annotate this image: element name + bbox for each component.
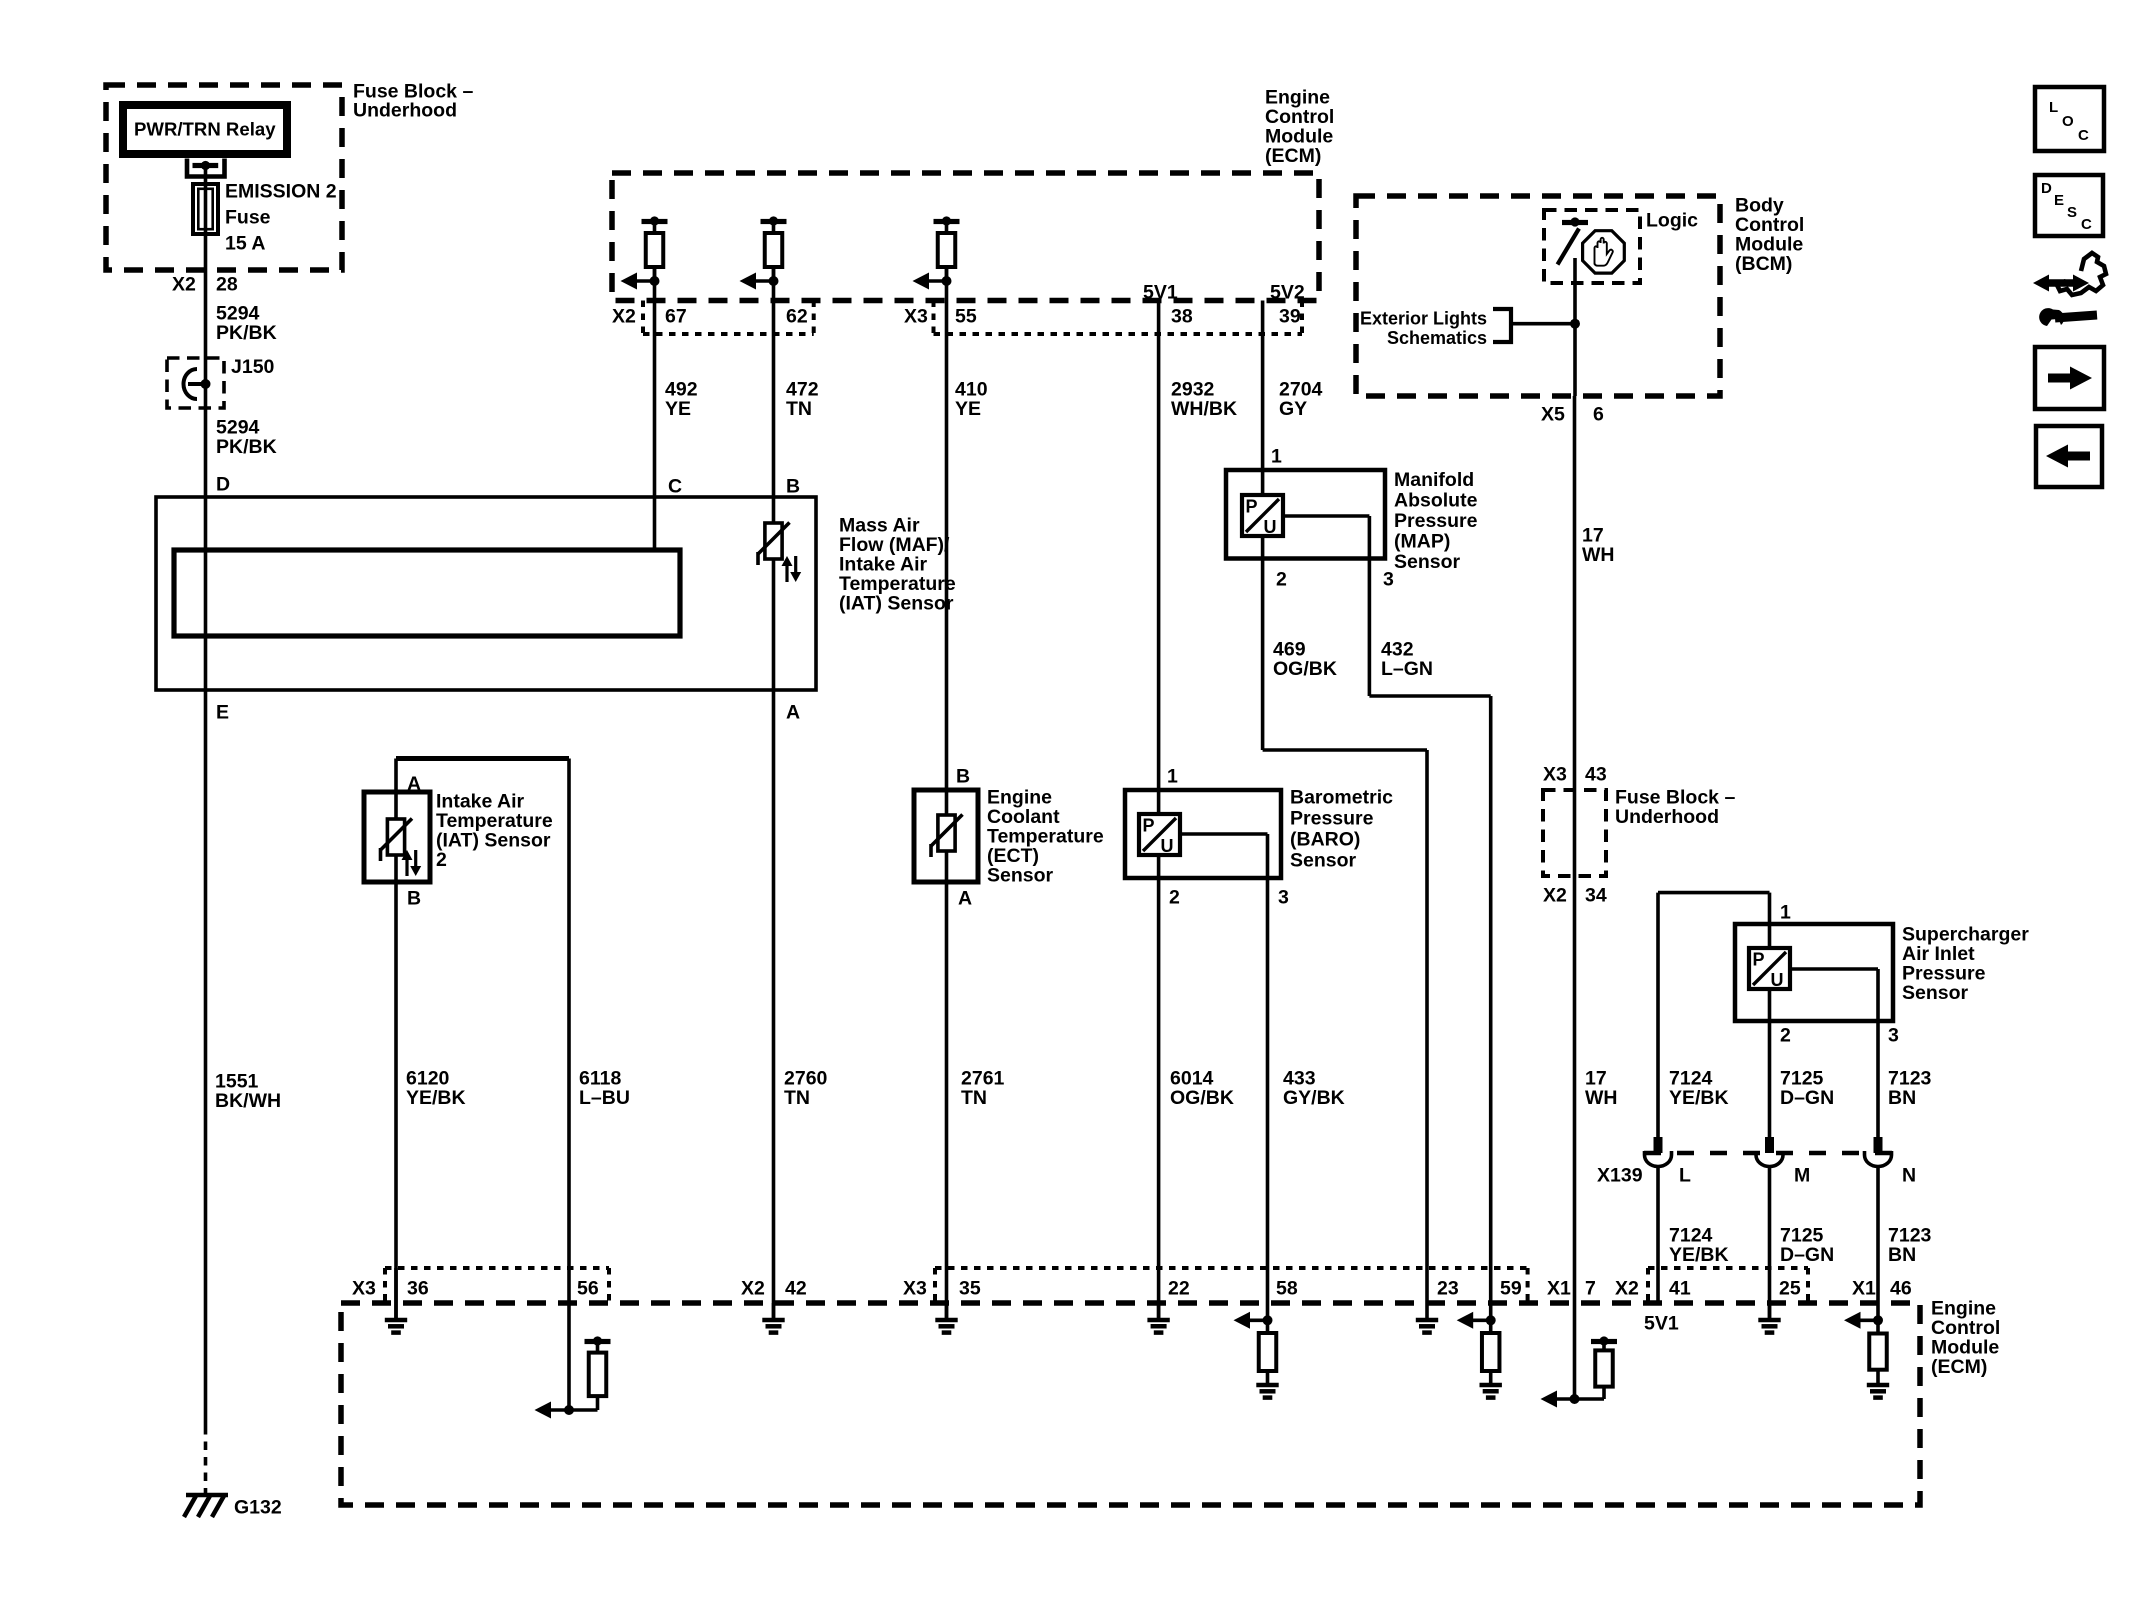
svg-text:15 A: 15 A (225, 233, 265, 255)
svg-text:1: 1 (1271, 446, 1282, 468)
pin 59 internal: arrow, resistor, ground (1457, 1312, 1502, 1398)
MAF/IAT sensor inner element box (174, 550, 680, 636)
MAF/IAT sensor outer box (156, 497, 816, 690)
svg-text:X3: X3 (352, 1278, 376, 1300)
svg-text:L: L (2049, 99, 2058, 116)
ECM internal pull-up resistor with arrow (pin 55) (913, 216, 960, 289)
wire label 6120 YE/BK (406, 1068, 466, 1110)
svg-text:C: C (2078, 127, 2089, 144)
svg-text:39: 39 (1279, 306, 1301, 328)
icon right-arrow box (2035, 347, 2104, 409)
wire 2704 GY (pin 39 5V2 to MAP 1) (1261, 301, 1265, 471)
ECM top dashed box (612, 87, 1334, 301)
svg-text:X2: X2 (741, 1278, 765, 1300)
svg-text:2: 2 (1780, 1025, 1791, 1047)
svg-text:62: 62 (786, 306, 808, 328)
svg-text:Underhood: Underhood (1615, 806, 1719, 828)
pin 46 internal: arrow, resistor, ground (1844, 1312, 1889, 1398)
svg-text:N: N (1902, 1165, 1916, 1187)
svg-text:Pressure: Pressure (1394, 510, 1478, 532)
svg-text:S: S (2067, 204, 2077, 221)
wire 492 YE (pin 67 to MAF C) (653, 267, 657, 497)
svg-text:42: 42 (785, 1278, 807, 1300)
svg-text:3: 3 (1383, 569, 1394, 591)
relay PWR/TRN Relay (123, 105, 287, 154)
svg-text:C: C (2081, 216, 2092, 233)
svg-text:L–BU: L–BU (579, 1087, 630, 1109)
svg-text:BN: BN (1888, 1087, 1916, 1109)
wire 2932 WH/BK (pin 38 5V1 to BARO 1) (1157, 301, 1161, 791)
svg-text:J150: J150 (231, 356, 275, 378)
fuse block underhood box (top left) (106, 81, 473, 271)
svg-text:O: O (2062, 113, 2074, 130)
connector label X5 6 (1541, 404, 1604, 426)
wire from logic switch down to X5 6 (1573, 258, 1577, 396)
icon vehicle with arrow and wrench (2033, 253, 2106, 326)
svg-text:D–GN: D–GN (1780, 1244, 1834, 1266)
ground G132 (184, 1494, 282, 1519)
svg-text:A: A (958, 888, 972, 910)
wire label 6118 L-BU (579, 1068, 630, 1110)
ECM bottom X3 connector strip (35 22 58 23 59) (903, 1268, 1528, 1303)
P/U transducer symbol (BARO) (1157, 790, 1161, 814)
inline connector terminal N (1865, 1137, 1917, 1187)
svg-text:2: 2 (436, 849, 447, 871)
svg-text:D–GN: D–GN (1780, 1087, 1834, 1109)
svg-text:34: 34 (1585, 885, 1607, 907)
svg-text:X2: X2 (1543, 885, 1567, 907)
ECM bottom X3 connector strip (36 56) (352, 1268, 609, 1303)
svg-text:BN: BN (1888, 1244, 1916, 1266)
svg-text:YE/BK: YE/BK (406, 1087, 466, 1109)
pin 58 internal: arrow, resistor, ground (1234, 1312, 1279, 1398)
pin 56 internal: arrow and pull-up resistor to 5V (535, 1268, 611, 1419)
svg-text:YE/BK: YE/BK (1669, 1087, 1729, 1109)
svg-text:GY: GY (1279, 398, 1307, 420)
svg-text:A: A (786, 702, 800, 724)
thermistor symbol (MAF IAT) (758, 523, 801, 583)
wire 7124 YE/BK lower (X139 L to ECM X2-41) (1658, 1166, 1729, 1305)
wire 1551 BK/WH (MAF E to G132) (206, 690, 282, 1494)
svg-text:22: 22 (1168, 1278, 1190, 1300)
svg-text:BK/WH: BK/WH (215, 1090, 281, 1112)
wire 410 YE (pin 55 to ECT B) (945, 267, 949, 790)
svg-text:5V2: 5V2 (1270, 282, 1305, 304)
svg-text:B: B (956, 766, 970, 788)
svg-text:(IAT) Sensor: (IAT) Sensor (839, 593, 954, 615)
svg-text:25: 25 (1779, 1278, 1801, 1300)
svg-text:Barometric: Barometric (1290, 787, 1393, 809)
svg-text:67: 67 (665, 306, 687, 328)
wire MAP pin3 432 L-GN to ECM 59 (1283, 516, 1491, 1320)
svg-text:3: 3 (1278, 887, 1289, 909)
svg-text:D: D (216, 474, 230, 496)
svg-text:28: 28 (216, 274, 238, 296)
ECM X3 connector strip (pins 55 38 39) (904, 301, 1302, 335)
svg-text:X5: X5 (1541, 404, 1565, 426)
svg-text:Sensor: Sensor (1902, 982, 1969, 1004)
X139 inline connector row (1597, 1153, 1908, 1187)
wire label 5294 PK/BK (216, 303, 277, 345)
pin 7 internal: arrow and pull-up resistor to 5V1 (1541, 1336, 1618, 1407)
svg-text:L–GN: L–GN (1381, 658, 1433, 680)
svg-text:2: 2 (1169, 887, 1180, 909)
svg-text:OG/BK: OG/BK (1273, 658, 1337, 680)
svg-text:(BARO): (BARO) (1290, 829, 1360, 851)
svg-text:OG/BK: OG/BK (1170, 1087, 1234, 1109)
icon LOC box (2035, 87, 2104, 151)
svg-text:PK/BK: PK/BK (216, 436, 277, 458)
wire MAP pin2 469 OG/BK to ECM 23 (1263, 536, 1427, 1318)
svg-text:Sensor: Sensor (987, 865, 1054, 887)
svg-text:Pressure: Pressure (1290, 808, 1374, 830)
svg-text:M: M (1794, 1165, 1810, 1187)
svg-text:23: 23 (1437, 1278, 1459, 1300)
ECM X2 connector strip (pins 67 62) (612, 301, 814, 335)
ECM internal pull-up resistor with arrow (pin 67) (621, 216, 668, 289)
svg-text:43: 43 (1585, 764, 1607, 786)
svg-text:YE: YE (665, 398, 691, 420)
connector label X2 28 (172, 274, 238, 296)
splice J150 (167, 356, 275, 408)
svg-text:X2: X2 (1615, 1278, 1639, 1300)
wire 17 WH (X2-34 down to ECM X1-7) (1575, 790, 1618, 1399)
svg-text:PK/BK: PK/BK (216, 322, 277, 344)
svg-text:(ECM): (ECM) (1931, 1356, 1987, 1378)
svg-text:WH/BK: WH/BK (1171, 398, 1237, 420)
svg-text:(IAT) Sensor: (IAT) Sensor (436, 830, 551, 852)
wire 472 TN (pin 62 to MAF B) (772, 267, 776, 497)
svg-text:B: B (786, 476, 800, 498)
svg-text:X3: X3 (1543, 764, 1567, 786)
IAT sensor 2 loop top (396, 759, 569, 1319)
ECM bottom X1-46 labels (1852, 1278, 1912, 1300)
svg-text:36: 36 (407, 1278, 429, 1300)
svg-text:WH: WH (1585, 1087, 1618, 1109)
svg-text:59: 59 (1500, 1278, 1522, 1300)
P/U transducer symbol (MAP) (1242, 495, 1283, 537)
svg-text:TN: TN (786, 398, 812, 420)
wire B through MAF box with IAT thermistor (772, 497, 776, 690)
ECM bottom dashed box (341, 1298, 2000, 1506)
svg-text:X139: X139 (1597, 1165, 1643, 1187)
svg-text:2: 2 (1276, 569, 1287, 591)
svg-text:Sensor: Sensor (1290, 850, 1357, 872)
svg-text:E: E (2054, 192, 2064, 209)
svg-text:55: 55 (955, 306, 977, 328)
svg-text:Underhood: Underhood (353, 100, 457, 122)
fuse block underhood pass-through X3 43 / X2 34 (1543, 764, 1735, 907)
svg-text:X1: X1 (1547, 1278, 1571, 1300)
svg-text:X2: X2 (612, 306, 636, 328)
svg-text:(BCM): (BCM) (1735, 253, 1792, 275)
relay contact terminal symbol (187, 159, 225, 177)
svg-text:58: 58 (1276, 1278, 1298, 1300)
svg-text:WH: WH (1582, 544, 1615, 566)
svg-text:TN: TN (784, 1087, 810, 1109)
svg-text:35: 35 (959, 1278, 981, 1300)
svg-text:(MAP): (MAP) (1394, 531, 1450, 553)
svg-text:D: D (2041, 180, 2052, 197)
ECM internal pull-up resistor with arrow (pin 62) (740, 216, 787, 289)
wire 7125 D-GN (SC pin 2 to X139 M) (1770, 989, 1835, 1137)
wire BARO pin2 6014 OG/BK to ECM 22 (1159, 855, 1234, 1318)
svg-text:7: 7 (1585, 1278, 1596, 1300)
svg-text:X2: X2 (172, 274, 196, 296)
svg-text:41: 41 (1669, 1278, 1691, 1300)
icon DESC box (2035, 175, 2103, 236)
wire 7124 YE/BK (ECM 41 via X139 L to SC pin 1) (1658, 893, 1770, 1137)
svg-text:TN: TN (961, 1087, 987, 1109)
svg-text:E: E (216, 702, 229, 724)
wire 5294 PK/BK from relay through fuse to MAF box pin D (204, 167, 208, 497)
svg-text:C: C (668, 476, 682, 498)
svg-text:5V1: 5V1 (1644, 1313, 1679, 1335)
BCM Logic dashed box (1544, 210, 1698, 284)
svg-text:Logic: Logic (1646, 210, 1698, 232)
wire 7125 D-GN lower (X139 M to ECM 25) (1770, 1166, 1835, 1318)
svg-text:YE/BK: YE/BK (1669, 1244, 1729, 1266)
stop-hand octagon icon (1583, 231, 1625, 273)
IAT sensor 2 element box (364, 791, 553, 883)
ground at ECM pin 25 (1758, 1303, 1780, 1333)
svg-text:Sensor: Sensor (1394, 551, 1461, 573)
svg-text:Absolute: Absolute (1394, 490, 1478, 512)
ground at ECM pin 23 (1416, 1320, 1438, 1333)
wire C into MAF inner box (653, 497, 657, 550)
MAP sensor box (1226, 469, 1478, 573)
icon left-arrow box (2036, 426, 2102, 487)
inline connector terminal L (1645, 1137, 1692, 1187)
svg-text:56: 56 (577, 1278, 599, 1300)
Supercharger Air Inlet Pressure Sensor box (1735, 924, 2029, 1022)
svg-text:1: 1 (1780, 902, 1791, 924)
svg-text:GY/BK: GY/BK (1283, 1087, 1345, 1109)
svg-text:L: L (1679, 1165, 1691, 1187)
ECM bottom X2 connector strip (41 25) (1615, 1268, 1808, 1303)
svg-text:Manifold: Manifold (1394, 469, 1474, 491)
svg-text:EMISSION 2: EMISSION 2 (225, 181, 337, 203)
switch contact inside Logic box (1558, 217, 1589, 264)
label Mass Air Flow (MAF)/ Intake Air Temperature (IAT) Sensor (839, 515, 956, 615)
wire 17 WH (BCM X5-6 down to fuse block X3-43) (1573, 396, 1577, 790)
Exterior Lights Schematics reference bracket (1360, 309, 1580, 349)
ground at ECM pin 22 (1147, 1303, 1169, 1333)
ECM bottom X1-7 labels (1547, 1278, 1596, 1300)
svg-text:46: 46 (1890, 1278, 1912, 1300)
ground at ECM pin 35 (935, 1303, 957, 1333)
wire MAP pin1 internal (1261, 470, 1265, 495)
svg-text:6: 6 (1593, 404, 1604, 426)
BCM dashed box (1356, 195, 1804, 397)
svg-text:B: B (407, 888, 421, 910)
svg-text:X3: X3 (904, 306, 928, 328)
svg-text:Exterior Lights: Exterior Lights (1360, 309, 1487, 329)
svg-text:Fuse: Fuse (225, 207, 271, 229)
svg-text:PWR/TRN Relay: PWR/TRN Relay (134, 119, 276, 140)
svg-text:YE: YE (955, 398, 981, 420)
wire 2761 TN (ECT A to ECM X3-35) (947, 882, 1005, 1318)
wire 7123 BN lower (X139 N to ECM X1-46) (1878, 1166, 1932, 1320)
inline connector terminal M (1756, 1137, 1810, 1187)
ground at ECM pin 36 (385, 1268, 407, 1333)
wire 7123 BN (SC pin 3 to X139 N) (1790, 969, 1932, 1137)
BARO sensor box (1125, 787, 1393, 879)
svg-text:X3: X3 (903, 1278, 927, 1300)
wire D-E through MAF box (204, 497, 208, 690)
svg-text:Schematics: Schematics (1387, 328, 1487, 348)
wire label 5294 PK/BK (below J150) (216, 417, 277, 459)
ECM bottom X2-42 labels (741, 1278, 807, 1300)
svg-text:3: 3 (1888, 1025, 1899, 1047)
fuse EMISSION 2 Fuse 15 A (193, 181, 337, 255)
P/U transducer symbol (supercharger) (1749, 948, 1790, 990)
svg-text:G132: G132 (234, 1497, 282, 1519)
ECT sensor box (914, 787, 1104, 887)
ground at ECM pin 42 (762, 1303, 784, 1333)
svg-text:(ECM): (ECM) (1265, 145, 1321, 167)
svg-text:1: 1 (1167, 766, 1178, 788)
svg-text:5V1: 5V1 (1143, 282, 1178, 304)
svg-text:X1: X1 (1852, 1278, 1876, 1300)
wire BARO pin3 433 GY/BK to ECM 58 (1180, 834, 1345, 1320)
wire 2760 TN (MAF A to ECM X2-42) (774, 690, 828, 1318)
svg-text:38: 38 (1171, 306, 1193, 328)
